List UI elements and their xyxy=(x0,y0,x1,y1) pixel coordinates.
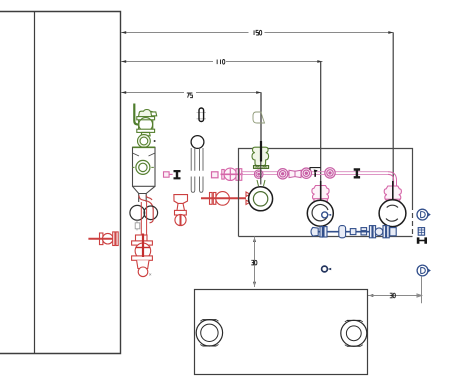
green top valve on skid xyxy=(252,147,269,168)
union gland flanges xyxy=(135,221,140,230)
drop line to right pump node xyxy=(392,33,394,201)
black I-beam symbol on header xyxy=(354,168,360,178)
blue discharge manifold xyxy=(311,226,396,238)
dimension line 150 xyxy=(121,32,394,34)
vessel body xyxy=(133,147,156,202)
dimension line 110 xyxy=(121,61,323,63)
pump 1 casing xyxy=(249,187,273,211)
pump 1 suction nozzle xyxy=(257,180,265,186)
dimension line 75 xyxy=(121,92,262,94)
dimension 30 right of tank xyxy=(368,294,422,297)
blue rotameter symbol 1 xyxy=(417,209,431,220)
pink elbow to riser xyxy=(388,172,397,186)
twin standpipes xyxy=(191,148,203,192)
dimension arrowheads xyxy=(121,31,393,297)
pink flange circle A xyxy=(254,170,263,179)
pink coupling between flanges xyxy=(289,170,301,177)
red elbow at vessel bottom xyxy=(139,196,153,210)
blue instrument bubble on pump 2 xyxy=(322,212,328,218)
stem line through pump 2 valve xyxy=(320,181,322,201)
blue strainer square xyxy=(418,228,424,236)
green actuator valve assembly xyxy=(137,110,157,148)
pink header pipe xyxy=(241,172,388,175)
standpipe circle xyxy=(191,136,204,149)
drop line to middle pump node xyxy=(320,62,322,201)
union ball pair xyxy=(130,205,158,220)
pink instrument square 1 xyxy=(164,172,173,177)
pump 3 casing xyxy=(379,200,406,227)
stub line under rotameter 2 xyxy=(421,276,423,303)
vertical dimension 30 between skid and tank xyxy=(254,237,256,288)
red pipe through union xyxy=(141,202,146,235)
black bone symbol xyxy=(417,237,427,243)
blue level symbol small xyxy=(322,266,332,272)
red angle valve with trapezoid bonnet xyxy=(174,195,188,226)
skid main rectangle xyxy=(239,149,413,237)
level gauge capsule xyxy=(197,113,207,119)
red horizontal valve train to pump 1 xyxy=(201,192,250,206)
pink valve above pump 3 xyxy=(384,186,401,202)
section flag marker xyxy=(310,168,321,170)
red wall valve xyxy=(88,232,118,246)
red valve stem xyxy=(142,234,144,258)
tank nozzle 2 xyxy=(341,320,367,346)
pink valve above pump 2 xyxy=(312,186,329,202)
pink flange circle C xyxy=(301,168,311,178)
green pipe stub J xyxy=(134,104,138,125)
black I-beam symbol 1 xyxy=(174,170,181,179)
pump 2 casing xyxy=(307,200,333,226)
weld mark at drain xyxy=(149,273,151,275)
stem line through pump 3 valve xyxy=(392,181,394,201)
valve stem line over green valve xyxy=(260,141,262,162)
drop line to green valve node xyxy=(260,93,262,149)
pink inlet valve at wall of skid xyxy=(221,168,244,180)
tank nozzle 1 xyxy=(196,320,222,346)
vessel green flange circle xyxy=(132,160,154,174)
blue rotameter symbol 2 on stub xyxy=(417,265,431,276)
pink flange circle D xyxy=(325,168,335,178)
red gate valve vertical assembly xyxy=(132,235,153,277)
hook outline near drop line xyxy=(253,112,265,123)
pink instrument square 2 xyxy=(212,172,219,178)
pink flange circle B xyxy=(278,169,288,179)
tank rectangle xyxy=(195,290,368,375)
left wall rectangle xyxy=(0,12,121,354)
